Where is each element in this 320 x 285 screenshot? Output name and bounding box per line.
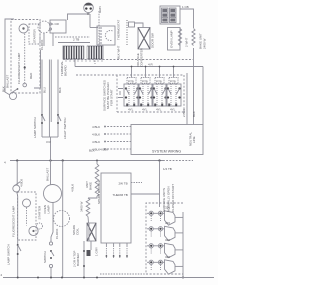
starter S1 (dashed box) <box>29 24 40 44</box>
svg-text:GRN: GRN <box>98 6 102 13</box>
svg-text:320: 320 <box>165 255 170 259</box>
fuse cells column 1 <box>162 8 169 23</box>
wire clock drop <box>43 33 45 46</box>
neutral rail N (bottom) <box>3 277 214 279</box>
svg-text:4 BLK: 4 BLK <box>92 133 100 137</box>
svg-text:STARTER: STARTER <box>38 205 42 220</box>
neutral return wire (long) <box>62 161 64 278</box>
fuse block box <box>160 6 180 24</box>
wire starter return <box>34 50 41 88</box>
svg-text:P7B: P7B <box>170 80 176 84</box>
svg-text:LAMP SWITCH: LAMP SWITCH <box>7 244 11 265</box>
svg-text:BLK: BLK <box>58 87 62 93</box>
svg-text:1 CR: 1 CR <box>52 22 60 26</box>
oven thermostat T1 <box>97 26 115 45</box>
lamp switch contacts on wire <box>41 114 43 116</box>
svg-text:COIL: COIL <box>76 228 80 235</box>
fuse cells column 2 <box>170 8 177 23</box>
terminal board TB1 <box>63 46 103 59</box>
wire 2W TB stub (dashed) <box>131 182 142 184</box>
svg-text:4YL: 4YL <box>156 108 162 112</box>
wire red from ballast to lamp switch <box>5 19 14 95</box>
spark module box U1 <box>101 173 131 243</box>
svg-text:SYSTEM WIRING: SYSTEM WIRING <box>152 150 181 154</box>
starter S2 (dashed circle) <box>37 223 43 229</box>
wire callout 4 into box <box>104 148 131 150</box>
svg-text:SURFACE UNITS: SURFACE UNITS <box>162 188 166 212</box>
bus A (dashed) from terminal board to right side <box>63 59 193 61</box>
svg-text:NORMALLY OPEN: NORMALLY OPEN <box>167 186 171 212</box>
clock motor M2 (dashed circle) <box>54 211 70 227</box>
svg-text:4 BLK: 4 BLK <box>92 140 100 144</box>
wire callout 1 into box <box>104 126 131 128</box>
light switch contacts <box>57 114 59 116</box>
wire transformer feed <box>135 23 144 28</box>
surface switch enclosure (dashed, sides+bottom) <box>117 75 184 112</box>
svg-text:P7B: P7B <box>156 80 162 84</box>
wire right riser to neutral box <box>202 67 204 125</box>
svg-text:UNIT: UNIT <box>85 181 89 188</box>
burner ignitor unit 3 <box>147 243 183 257</box>
surface switch SW-A <box>124 67 139 107</box>
svg-text:BALLAST: BALLAST <box>6 75 10 88</box>
transformer X1 (box with X) <box>138 28 150 50</box>
svg-text:SPARK MODULE: SPARK MODULE <box>97 180 101 204</box>
wire from relay to plug cord <box>68 14 91 20</box>
svg-text:FLUORESCENT LAMP: FLUORESCENT LAMP <box>17 53 21 84</box>
resistor: bake ignitor R2 <box>192 29 195 46</box>
svg-text:2 WHT: 2 WHT <box>185 38 189 48</box>
svg-text:FOR START: FOR START <box>110 89 114 106</box>
surface burner enclosure (dashed, 3 sides) <box>146 203 183 274</box>
node dots on bus B <box>131 66 133 68</box>
L1 supply rail (upper) <box>10 160 163 162</box>
svg-text:SWITCH: SWITCH <box>43 251 47 263</box>
svg-text:1 GRY: 1 GRY <box>95 247 99 256</box>
resistor: broil ignitor R1 <box>178 29 181 46</box>
burner ignitor unit 2 <box>147 226 183 240</box>
oven lamp housing box <box>168 28 181 51</box>
svg-text:320: 320 <box>165 221 170 225</box>
wire stubs below relay <box>52 33 54 46</box>
neutral junction box <box>131 125 203 155</box>
svg-text:320: 320 <box>165 238 170 242</box>
svg-text:4 BLK: 4 BLK <box>71 184 75 192</box>
dashed burner return along bottom <box>100 273 146 275</box>
ballast B2 (round) <box>44 185 62 203</box>
svg-text:4 BLK: 4 BLK <box>92 125 100 129</box>
wire THERM TB <box>131 193 160 195</box>
fluorescent lamp enclosure (console, dashed) <box>11 20 40 94</box>
svg-text:STARTER: STARTER <box>33 28 37 43</box>
node dots on callouts <box>104 126 106 128</box>
ignition transformer X2 (box with X) <box>87 223 96 241</box>
fluorescent tube body <box>24 34 26 86</box>
svg-text:CLOCK: CLOCK <box>40 40 44 50</box>
svg-text:4 BLK: 4 BLK <box>100 148 108 152</box>
oven fluorescent enclosure (dashed) <box>18 192 37 240</box>
surface switch SW-D <box>166 67 181 107</box>
svg-text:1 CB: 1 CB <box>182 5 189 9</box>
wire switch entry marks <box>118 89 123 98</box>
surface switch SW-B <box>138 67 153 107</box>
oven lamp switch SW2 <box>17 240 19 278</box>
lamp switch SW1 (rotary) <box>9 92 16 99</box>
svg-text:THERM TB: THERM TB <box>113 193 128 197</box>
oven lamp end 1 <box>23 199 31 207</box>
svg-text:2 BLK: 2 BLK <box>182 109 186 117</box>
svg-text:2: 2 <box>1 273 3 277</box>
bus C (dashed) switch bank top <box>76 74 184 76</box>
node: tube lower terminal <box>23 83 27 87</box>
wire drop to oven lamp switch <box>16 161 18 186</box>
svg-text:BAKE: BAKE <box>89 182 93 190</box>
wire ignitor return <box>83 241 85 278</box>
resistor: bake unit R3 <box>95 164 99 196</box>
svg-text:BLK: BLK <box>89 149 95 153</box>
svg-text:2400 W: 2400 W <box>203 38 207 49</box>
oven lamp end 2 <box>29 226 38 235</box>
wire spark outputs <box>106 243 127 247</box>
svg-text:4YL: 4YL <box>128 108 134 112</box>
burner ignitor unit 1 <box>147 211 183 225</box>
svg-text:RED: RED <box>29 72 33 79</box>
switch unit bottom tabs <box>126 104 128 107</box>
svg-text:FLUORESCENT LAMP: FLUORESCENT LAMP <box>12 206 16 237</box>
svg-text:LAMP SWITCH: LAMP SWITCH <box>33 117 37 138</box>
wire transformer to rail <box>90 241 92 250</box>
svg-text:BLU: BLU <box>43 87 47 93</box>
svg-text:BLK: BLK <box>2 86 6 92</box>
top right feed wire <box>180 9 194 28</box>
svg-text:4: 4 <box>4 161 6 165</box>
wire below ignitor <box>193 48 195 125</box>
svg-text:P7B: P7B <box>128 80 134 84</box>
svg-text:1/4 TB: 1/4 TB <box>163 167 172 171</box>
svg-text:CLOSED ON START: CLOSED ON START <box>171 184 175 212</box>
connector box <box>129 22 135 27</box>
svg-text:OVEN LAMP: OVEN LAMP <box>170 30 174 48</box>
interlock dotted wire <box>126 20 128 45</box>
clock motor M1 (dashed circle) <box>38 21 50 33</box>
wire bake to broil jog <box>88 196 97 198</box>
svg-text:3400 W: 3400 W <box>80 201 84 212</box>
power cord plug P1 <box>84 3 94 13</box>
wire rail to ballast <box>50 137 52 185</box>
wire callout 3 into box <box>104 141 131 143</box>
wire ballast to oven light switch <box>51 203 53 242</box>
node: tube mid terminal <box>24 66 26 68</box>
wire to thermostat <box>90 27 98 29</box>
wire stubs under terminal board <box>66 59 102 62</box>
svg-text:LAMP: LAMP <box>47 205 51 213</box>
wire burner common riser <box>182 212 184 278</box>
svg-text:THERMOSTAT: THERMOSTAT <box>117 20 121 40</box>
wire pair to terminal board <box>48 60 50 138</box>
push switch SW3 <box>50 240 52 242</box>
svg-text:4YL: 4YL <box>170 108 176 112</box>
svg-text:4YL: 4YL <box>142 108 148 112</box>
svg-text:BURNER: BURNER <box>76 252 80 266</box>
wire callout 2 into box <box>104 133 131 135</box>
wire rail to bake unit <box>96 161 98 165</box>
surface switch SW-C <box>152 67 167 107</box>
resistor: broil unit R4 <box>86 198 90 217</box>
svg-text:2W TB: 2W TB <box>119 182 128 186</box>
svg-text:BLK: BLK <box>192 111 196 117</box>
burner ignitor unit 4 <box>147 260 183 274</box>
svg-text:CLOCK: CLOCK <box>55 229 59 239</box>
oven lamp rotary switch SW4 <box>13 185 20 192</box>
svg-text:4 R: 4 R <box>148 63 154 67</box>
svg-text:LINE: LINE <box>192 136 196 143</box>
svg-text:4 BLK: 4 BLK <box>20 179 24 187</box>
svg-text:DOOR SW: DOOR SW <box>151 33 155 48</box>
wire plug drop <box>87 13 89 14</box>
ground wire GRN (dashed) <box>98 11 100 46</box>
fluorescent lamp FL1 end cap <box>19 24 28 33</box>
relay 1CR box <box>50 20 66 33</box>
wire broil to ignition transformer <box>87 217 90 223</box>
wire joining switches <box>42 136 58 138</box>
svg-text:P7B: P7B <box>142 80 148 84</box>
node dots on L1 rail <box>16 159 18 161</box>
svg-text:CONVERTER: CONVERTER <box>140 47 144 67</box>
wire BLU lamp-switch branch <box>41 60 43 138</box>
wire BLK light-switch branch <box>57 60 59 138</box>
sensor blob <box>87 250 91 256</box>
bus B (solid) feeding surface switches <box>75 66 203 68</box>
wire stub board to bus <box>74 58 76 67</box>
wire from rail to burner box <box>159 161 161 208</box>
terminal board gap <box>84 45 87 60</box>
svg-text:BOARD: BOARD <box>64 64 68 76</box>
svg-text:2 TB: 2 TB <box>73 38 79 42</box>
svg-text:LIGHT SWITCH: LIGHT SWITCH <box>63 118 67 139</box>
wire right side of switch bank <box>186 73 188 125</box>
wire switch to lamp box <box>16 192 19 240</box>
svg-text:BLK WHT: BLK WHT <box>117 45 121 59</box>
svg-text:BALLAST: BALLAST <box>46 168 50 181</box>
